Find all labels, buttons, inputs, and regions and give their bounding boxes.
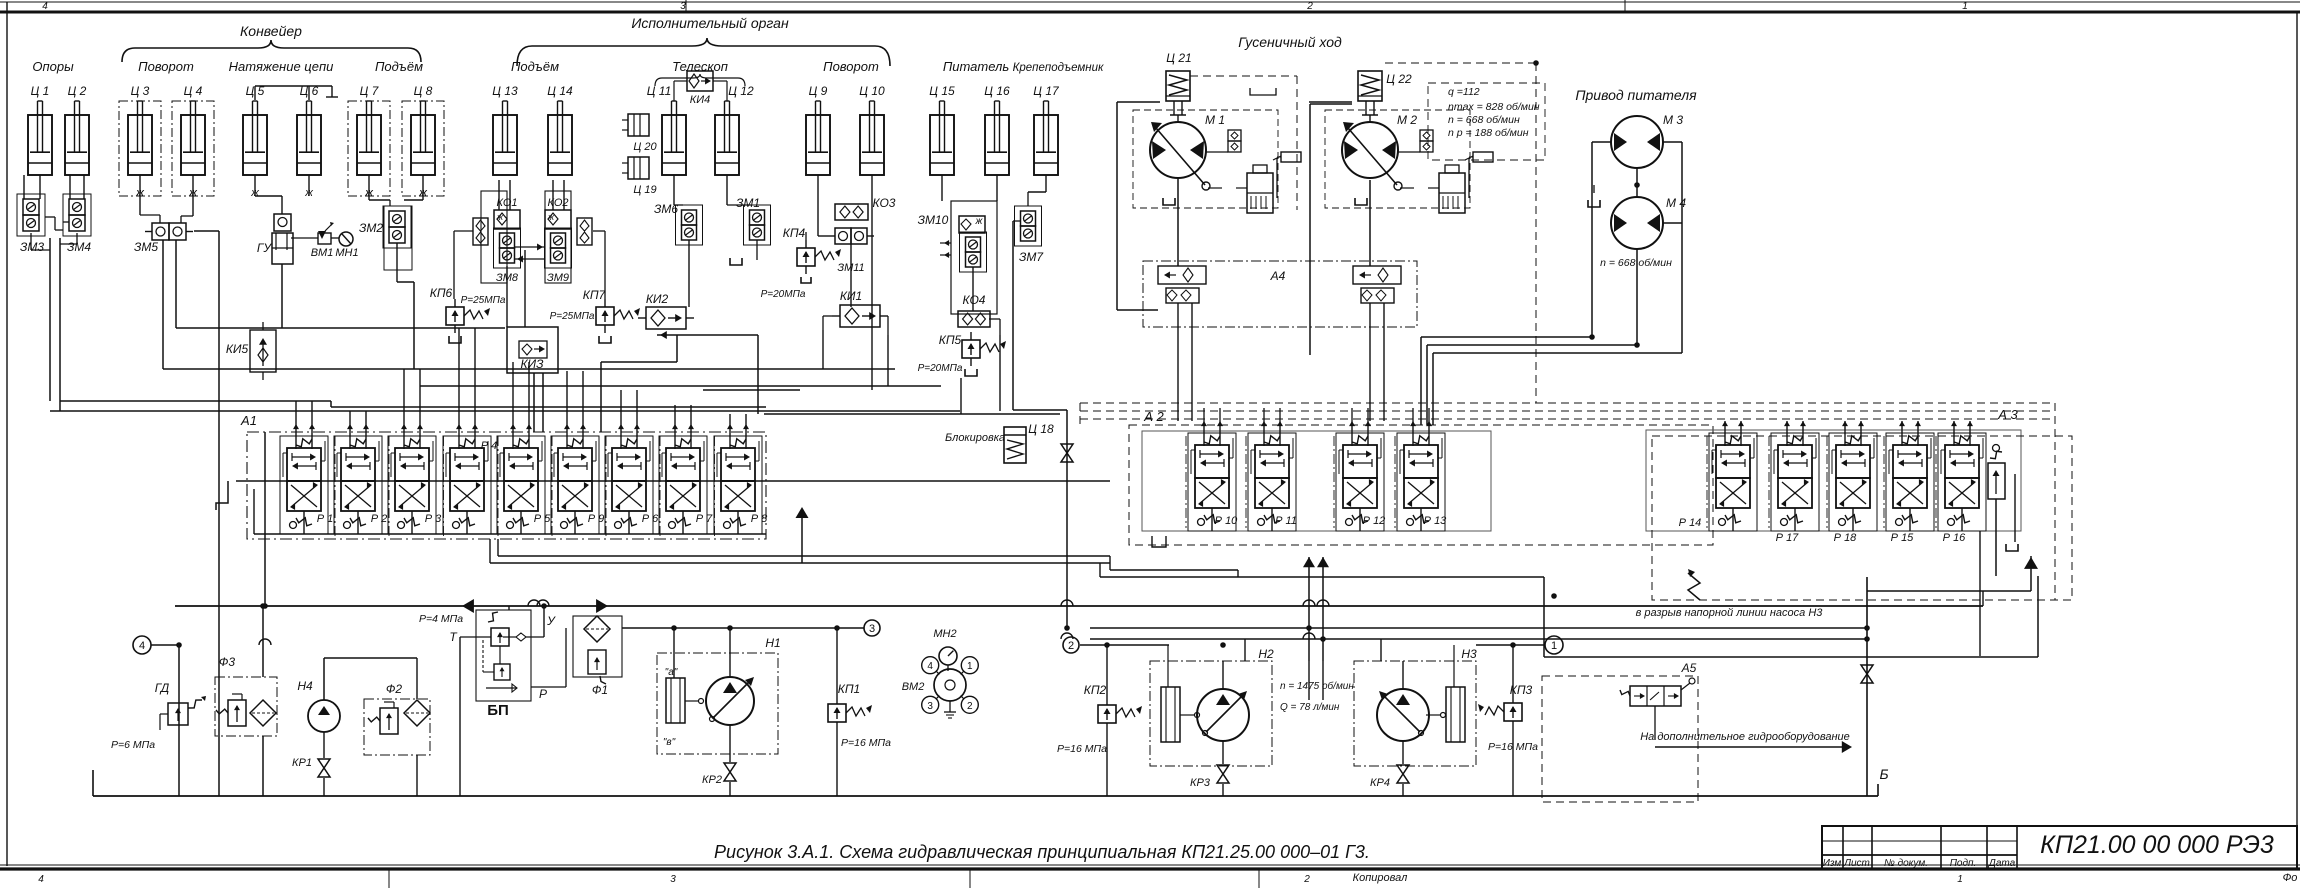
svg-text:Ц 22: Ц 22 <box>1386 72 1412 86</box>
svg-text:ВМ2: ВМ2 <box>902 681 925 693</box>
svg-text:3: 3 <box>927 701 933 712</box>
svg-text:У: У <box>546 614 556 628</box>
svg-text:3: 3 <box>670 874 676 885</box>
svg-text:Р=25МПа: Р=25МПа <box>461 295 506 306</box>
svg-text:1: 1 <box>1962 1 1968 12</box>
svg-text:Гусеничный ход: Гусеничный ход <box>1238 34 1342 50</box>
svg-text:Питатель: Питатель <box>943 59 1010 74</box>
svg-text:ж: ж <box>975 216 984 227</box>
svg-text:Натяжение цепи: Натяжение цепи <box>229 59 334 74</box>
svg-text:Ц 7: Ц 7 <box>360 84 380 98</box>
svg-text:КП21.00 00 000 РЭ3: КП21.00 00 000 РЭ3 <box>2040 831 2274 859</box>
svg-text:Ф1: Ф1 <box>592 683 608 697</box>
svg-text:ЗМ5: ЗМ5 <box>134 240 158 254</box>
svg-text:1: 1 <box>1551 640 1557 652</box>
svg-text:Н1: Н1 <box>765 636 780 650</box>
svg-text:Р 12: Р 12 <box>1363 515 1386 527</box>
svg-text:Поворот: Поворот <box>138 59 194 74</box>
svg-text:Р 9: Р 9 <box>588 513 605 525</box>
svg-text:МН2: МН2 <box>933 628 956 640</box>
svg-text:Подъём: Подъём <box>511 59 559 74</box>
svg-text:Ц 21: Ц 21 <box>1166 51 1191 65</box>
svg-text:4: 4 <box>38 874 44 885</box>
svg-text:КО2: КО2 <box>547 197 568 209</box>
svg-text:А4: А4 <box>1270 269 1286 283</box>
svg-text:Ц 4: Ц 4 <box>184 84 203 98</box>
svg-text:Фо: Фо <box>2283 872 2298 884</box>
svg-text:Р 18: Р 18 <box>1834 532 1858 544</box>
svg-text:ГУ: ГУ <box>257 241 273 255</box>
svg-text:Р 10: Р 10 <box>1215 515 1239 527</box>
svg-text:в разрыв напорной линии насоса: в разрыв напорной линии насоса Н3 <box>1636 607 1824 619</box>
svg-text:Р 1: Р 1 <box>317 513 334 525</box>
svg-text:nmax = 828 об/мин: nmax = 828 об/мин <box>1448 101 1540 113</box>
svg-text:Подъём: Подъём <box>375 59 423 74</box>
svg-text:Лист: Лист <box>1843 858 1870 869</box>
svg-text:КП5: КП5 <box>939 333 962 347</box>
svg-text:КО3: КО3 <box>873 196 896 210</box>
svg-text:Копировал: Копировал <box>1353 872 1408 884</box>
svg-text:3: 3 <box>680 1 686 12</box>
svg-text:ЗМ3: ЗМ3 <box>20 240 44 254</box>
svg-text:2: 2 <box>1306 1 1313 12</box>
svg-text:№ докум.: № докум. <box>1884 858 1928 869</box>
svg-text:q =112: q =112 <box>1448 86 1480 98</box>
svg-text:КР1: КР1 <box>292 757 312 769</box>
svg-text:На дополнительное гидрооборудо: На дополнительное гидрооборудование <box>1640 731 1850 743</box>
svg-text:КП4: КП4 <box>783 226 806 240</box>
svg-text:Привод питателя: Привод питателя <box>1575 87 1697 103</box>
svg-text:"в": "в" <box>663 737 676 748</box>
svg-text:n = 668 об/мин: n = 668 об/мин <box>1600 257 1672 269</box>
svg-text:Ц 9: Ц 9 <box>809 84 828 98</box>
svg-text:Р 7: Р 7 <box>696 513 713 525</box>
svg-text:Р=16 МПа: Р=16 МПа <box>1057 743 1107 755</box>
svg-text:ж: ж <box>547 212 555 222</box>
svg-text:КО4: КО4 <box>963 293 986 307</box>
svg-text:ЗМ4: ЗМ4 <box>67 240 91 254</box>
svg-text:КП7: КП7 <box>583 288 607 302</box>
svg-text:Ф3: Ф3 <box>219 655 236 669</box>
svg-text:КИ5: КИ5 <box>226 342 249 356</box>
svg-text:Ф2: Ф2 <box>386 682 403 696</box>
svg-text:ж: ж <box>496 212 504 222</box>
svg-text:n = 1475 об/мин: n = 1475 об/мин <box>1280 680 1354 692</box>
svg-text:3: 3 <box>869 623 875 635</box>
svg-text:Поворот: Поворот <box>823 59 879 74</box>
svg-text:Р 8: Р 8 <box>751 513 768 525</box>
svg-text:Ц 15: Ц 15 <box>929 84 955 98</box>
svg-text:Ц 10: Ц 10 <box>859 84 885 98</box>
svg-text:Н2: Н2 <box>1258 647 1274 661</box>
svg-text:1: 1 <box>1957 874 1963 885</box>
svg-text:n = 668 об/мин: n = 668 об/мин <box>1448 114 1520 126</box>
svg-text:Q = 78 л/мин: Q = 78 л/мин <box>1280 702 1340 713</box>
svg-text:4: 4 <box>927 661 933 672</box>
svg-text:2: 2 <box>1303 874 1310 885</box>
svg-text:Ц 18: Ц 18 <box>1028 422 1054 436</box>
svg-text:Н4: Н4 <box>297 679 313 693</box>
svg-text:Р=20МПа: Р=20МПа <box>918 363 963 374</box>
svg-text:ГД: ГД <box>155 681 170 695</box>
svg-text:Ц 1: Ц 1 <box>31 84 50 98</box>
svg-text:Р 16: Р 16 <box>1943 532 1967 544</box>
svg-text:Ц 19: Ц 19 <box>633 184 656 196</box>
svg-text:ЗМ1: ЗМ1 <box>736 196 760 210</box>
svg-text:Дата: Дата <box>1988 858 2016 869</box>
svg-text:Ц 17: Ц 17 <box>1033 84 1060 98</box>
svg-text:Р 13: Р 13 <box>1424 515 1448 527</box>
svg-text:А 3: А 3 <box>1997 407 2018 422</box>
svg-text:4: 4 <box>139 640 145 652</box>
svg-text:Р 3: Р 3 <box>425 513 442 525</box>
svg-text:"а": "а" <box>665 667 678 678</box>
svg-text:КР2: КР2 <box>702 774 722 786</box>
svg-text:Р 17: Р 17 <box>1776 532 1800 544</box>
svg-text:Ц 20: Ц 20 <box>633 141 657 153</box>
svg-text:МН1: МН1 <box>335 247 358 259</box>
svg-text:1: 1 <box>967 661 973 672</box>
svg-text:4: 4 <box>42 1 48 12</box>
svg-text:Ц 2: Ц 2 <box>68 84 87 98</box>
svg-text:Р 11: Р 11 <box>1275 515 1297 527</box>
svg-text:ВМ1: ВМ1 <box>311 247 334 259</box>
svg-text:Р 2: Р 2 <box>371 513 388 525</box>
svg-text:Р=16 МПа: Р=16 МПа <box>841 737 891 749</box>
svg-text:Ц 8: Ц 8 <box>414 84 433 98</box>
svg-text:КП6: КП6 <box>430 286 453 300</box>
svg-text:А1: А1 <box>240 413 257 428</box>
svg-text:Ц 13: Ц 13 <box>492 84 518 98</box>
svg-text:М 2: М 2 <box>1397 113 1417 127</box>
svg-text:Крепеподъемник: Крепеподъемник <box>1013 62 1104 74</box>
svg-text:Исполнительный орган: Исполнительный орган <box>631 15 789 31</box>
svg-text:Р=25МПа: Р=25МПа <box>550 311 595 322</box>
svg-text:Рисунок 3.А.1. Схема гидравлич: Рисунок 3.А.1. Схема гидравлическая прин… <box>714 842 1370 862</box>
svg-text:Р 15: Р 15 <box>1891 532 1915 544</box>
svg-text:Подп.: Подп. <box>1950 858 1977 869</box>
svg-text:Ц 3: Ц 3 <box>131 84 150 98</box>
svg-text:А5: А5 <box>1681 661 1697 675</box>
svg-text:ЗМ9: ЗМ9 <box>547 272 569 284</box>
svg-text:Ц 16: Ц 16 <box>984 84 1010 98</box>
svg-text:М 3: М 3 <box>1663 113 1683 127</box>
svg-text:КП1: КП1 <box>838 682 860 696</box>
svg-text:Р 6: Р 6 <box>642 513 659 525</box>
svg-text:Изм: Изм <box>1823 858 1842 869</box>
svg-text:М 4: М 4 <box>1666 196 1686 210</box>
svg-text:Р: Р <box>539 687 547 701</box>
svg-text:Ц 11: Ц 11 <box>647 84 672 98</box>
svg-text:Блокировка: Блокировка <box>945 432 1005 444</box>
svg-text:КИ4: КИ4 <box>690 94 710 106</box>
svg-text:Н3: Н3 <box>1461 647 1477 661</box>
svg-text:ЗМ2: ЗМ2 <box>359 221 383 235</box>
svg-text:КИ1: КИ1 <box>840 289 862 303</box>
svg-text:БП: БП <box>487 702 509 719</box>
svg-text:ЗМ10: ЗМ10 <box>918 213 949 227</box>
svg-text:М 1: М 1 <box>1205 113 1225 127</box>
svg-text:Б: Б <box>1879 766 1888 782</box>
svg-text:КП2: КП2 <box>1084 683 1107 697</box>
svg-text:Ц 12: Ц 12 <box>728 84 754 98</box>
svg-text:Р 4: Р 4 <box>481 440 498 452</box>
svg-text:Р=20МПа: Р=20МПа <box>761 289 806 300</box>
svg-text:n р = 188 об/мин: n р = 188 об/мин <box>1448 127 1529 139</box>
svg-text:2: 2 <box>1068 640 1074 652</box>
svg-text:КР4: КР4 <box>1370 777 1390 789</box>
svg-text:2: 2 <box>967 701 973 712</box>
svg-text:Опоры: Опоры <box>32 59 74 74</box>
svg-text:КИ2: КИ2 <box>646 292 669 306</box>
svg-text:Р 14: Р 14 <box>1679 517 1702 529</box>
svg-text:КР3: КР3 <box>1190 777 1211 789</box>
svg-text:Конвейер: Конвейер <box>240 23 302 39</box>
svg-text:ЗМ7: ЗМ7 <box>1019 250 1044 264</box>
svg-text:Р 5: Р 5 <box>534 513 551 525</box>
svg-text:Ц 14: Ц 14 <box>547 84 573 98</box>
svg-text:Р=6 МПа: Р=6 МПа <box>111 739 155 751</box>
svg-text:Р=4 МПа: Р=4 МПа <box>419 613 463 625</box>
